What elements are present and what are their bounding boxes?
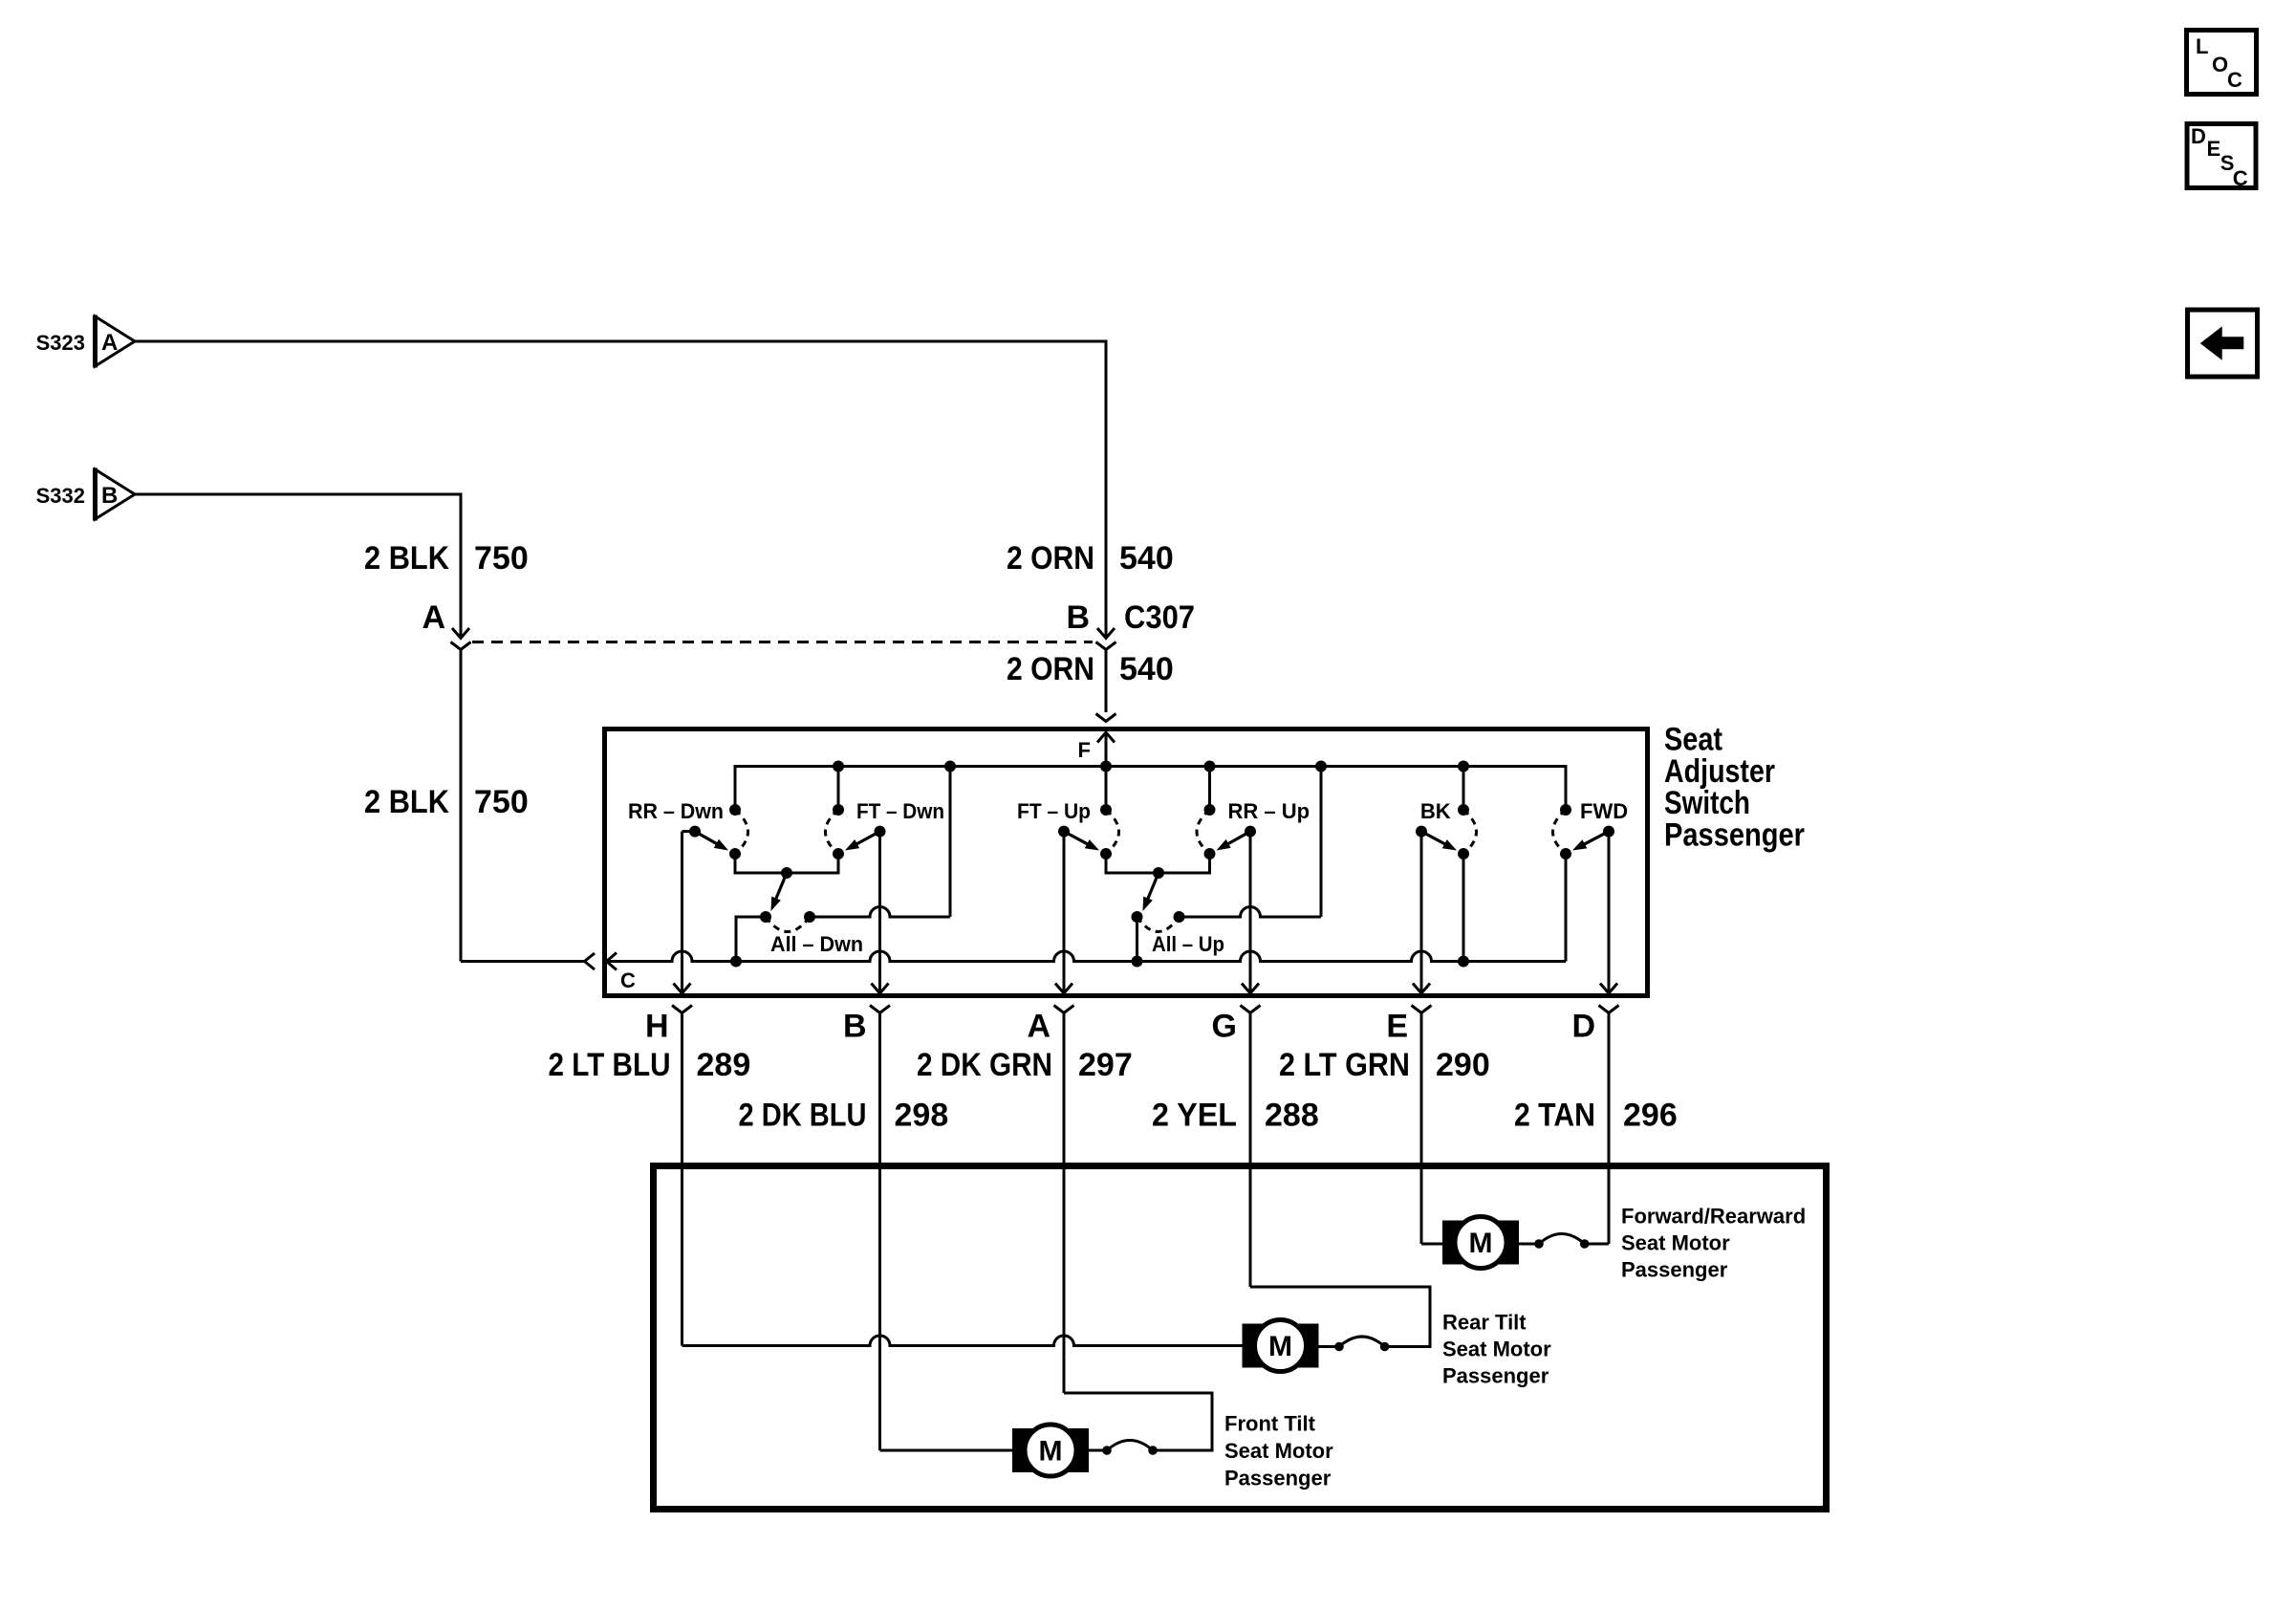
svg-text:O: O: [2212, 53, 2228, 76]
svg-text:Adjuster: Adjuster: [1664, 753, 1775, 790]
svg-text:2 BLK: 2 BLK: [364, 540, 449, 577]
svg-text:A: A: [1027, 1009, 1051, 1045]
svg-text:2 YEL: 2 YEL: [1152, 1098, 1237, 1134]
svg-text:Rear Tilt: Rear Tilt: [1442, 1311, 1527, 1335]
svg-text:296: 296: [1623, 1098, 1678, 1134]
svg-text:M: M: [1469, 1228, 1493, 1259]
svg-text:298: 298: [895, 1098, 949, 1134]
svg-text:Seat: Seat: [1664, 721, 1722, 757]
svg-text:540: 540: [1119, 540, 1174, 577]
svg-text:B: B: [1066, 599, 1090, 636]
svg-text:2 ORN: 2 ORN: [1007, 540, 1094, 577]
svg-text:Passenger: Passenger: [1224, 1467, 1332, 1490]
svg-text:2 ORN: 2 ORN: [1007, 651, 1094, 687]
svg-text:F: F: [1078, 738, 1091, 762]
svg-text:A: A: [101, 330, 118, 356]
svg-text:H: H: [645, 1009, 669, 1045]
svg-text:FWD: FWD: [1580, 799, 1628, 823]
svg-text:297: 297: [1078, 1047, 1133, 1083]
svg-text:FT – Dwn: FT – Dwn: [856, 799, 944, 823]
svg-text:2 DK GRN: 2 DK GRN: [917, 1047, 1052, 1083]
svg-text:S323: S323: [36, 331, 85, 355]
svg-text:750: 750: [474, 540, 529, 577]
svg-text:Front Tilt: Front Tilt: [1224, 1412, 1316, 1436]
svg-text:L: L: [2196, 34, 2208, 58]
svg-text:Passenger: Passenger: [1442, 1364, 1549, 1388]
svg-text:D: D: [1571, 1009, 1595, 1045]
svg-text:RR – Up: RR – Up: [1228, 799, 1310, 823]
svg-text:Seat Motor: Seat Motor: [1442, 1338, 1551, 1361]
svg-text:G: G: [1212, 1009, 1237, 1045]
svg-text:C307: C307: [1124, 599, 1195, 636]
svg-text:BK: BK: [1420, 799, 1451, 823]
svg-text:2 BLK: 2 BLK: [364, 784, 449, 820]
svg-text:C: C: [2227, 68, 2242, 92]
svg-text:C: C: [2233, 166, 2248, 190]
svg-text:M: M: [1268, 1331, 1292, 1362]
svg-text:Passenger: Passenger: [1621, 1258, 1728, 1282]
svg-text:2 DK BLU: 2 DK BLU: [739, 1098, 867, 1134]
svg-text:E: E: [1386, 1009, 1408, 1045]
svg-text:Passenger: Passenger: [1664, 817, 1805, 854]
svg-text:B: B: [101, 483, 118, 509]
svg-text:289: 289: [697, 1047, 751, 1083]
svg-text:Switch: Switch: [1664, 785, 1750, 821]
svg-text:A: A: [422, 599, 445, 636]
svg-text:RR – Dwn: RR – Dwn: [628, 799, 724, 823]
svg-text:All – Dwn: All – Dwn: [770, 932, 863, 956]
svg-text:S332: S332: [36, 484, 85, 508]
svg-text:288: 288: [1265, 1098, 1319, 1134]
svg-text:M: M: [1039, 1436, 1063, 1468]
svg-text:2 LT BLU: 2 LT BLU: [549, 1047, 671, 1083]
svg-text:Seat Motor: Seat Motor: [1621, 1231, 1730, 1255]
svg-text:D: D: [2191, 124, 2206, 148]
svg-text:All – Up: All – Up: [1152, 932, 1224, 956]
svg-text:C: C: [620, 968, 636, 992]
svg-text:540: 540: [1119, 651, 1174, 687]
svg-text:B: B: [843, 1009, 867, 1045]
svg-text:2 TAN: 2 TAN: [1514, 1098, 1595, 1134]
svg-text:FT – Up: FT – Up: [1017, 799, 1091, 823]
svg-text:Seat Motor: Seat Motor: [1224, 1439, 1333, 1463]
svg-text:2 LT GRN: 2 LT GRN: [1279, 1047, 1410, 1083]
svg-text:290: 290: [1436, 1047, 1490, 1083]
svg-text:E: E: [2207, 137, 2221, 161]
svg-text:Forward/Rearward: Forward/Rearward: [1621, 1205, 1806, 1229]
svg-text:750: 750: [474, 784, 529, 820]
